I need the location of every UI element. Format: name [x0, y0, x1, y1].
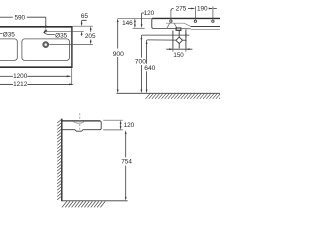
leader Ø35 left (cut off): [0, 32, 3, 34]
basin front edge (thick): [0, 66, 73, 68]
supply pipe right: [185, 29, 187, 48]
siphon diamond: [176, 37, 183, 43]
deck faucet hole: [45, 30, 47, 32]
left bowl: [0, 39, 17, 61]
drain flange: [176, 28, 181, 30]
svg-text:65: 65: [81, 13, 89, 20]
svg-text:1212: 1212: [13, 81, 28, 88]
basin profile top: [62, 120, 100, 122]
floor hatching side view: [62, 201, 105, 207]
dimension 1200: [0, 75, 13, 77]
extension line apron bottom: [133, 27, 145, 29]
dimension 275/190 extension verticals: [170, 10, 172, 19]
wall hatching: [57, 120, 61, 200]
oblique arrow at hole: [43, 29, 46, 33]
dimension 190: [209, 8, 212, 10]
dimension 900: [117, 18, 119, 22]
basin bar bottom left: [153, 27, 177, 29]
basin right edge: [71, 26, 73, 68]
extension line right edge below: [71, 68, 73, 84]
basin bar left end: [152, 18, 153, 28]
dimension 1212: [0, 83, 13, 85]
dim 120 extension bottom: [103, 129, 123, 131]
svg-text:120: 120: [124, 122, 135, 129]
svg-text:900: 900: [113, 51, 124, 58]
basin profile bottom with drain notch: [62, 130, 101, 132]
drain boss trapezoid: [167, 23, 177, 28]
deck hole middle: [194, 20, 196, 22]
svg-text:190: 190: [197, 6, 208, 13]
floor line elevation: [117, 92, 221, 94]
svg-text:590: 590: [14, 14, 25, 21]
dimension 205: [90, 26, 92, 30]
drain dashed centerline: [79, 113, 81, 131]
deck hole right: [212, 20, 214, 22]
basin bar bottom right: [181, 28, 191, 30]
svg-text:Ø35: Ø35: [55, 32, 68, 39]
drain pipe: [178, 30, 180, 37]
leader Ø35 right: [44, 32, 55, 34]
dimension 275: [171, 9, 174, 12]
svg-text:640: 640: [144, 65, 155, 72]
floor hatching elevation: [146, 94, 221, 99]
drain level line 640: [148, 39, 177, 41]
svg-text:120: 120: [144, 10, 155, 17]
wall line: [61, 119, 63, 202]
supply pipe left: [172, 31, 174, 49]
dimension 150: [172, 47, 174, 52]
svg-text:150: 150: [173, 52, 184, 59]
right bowl: [22, 39, 70, 61]
dimension 590 line: [0, 16, 13, 18]
dim 120 extension top: [103, 119, 123, 121]
deck hole left: [170, 20, 172, 22]
floor line side view: [62, 200, 128, 202]
supply level line 700: [142, 34, 189, 36]
dimension 120 side: [120, 120, 122, 124]
dimension 700: [141, 35, 142, 36]
drain ring outer rim: [43, 42, 49, 48]
top extension line to wall dim: [118, 17, 152, 19]
basin rear edge (thick): [0, 26, 73, 28]
svg-text:754: 754: [121, 159, 132, 166]
svg-text:1200: 1200: [13, 73, 28, 80]
dimension 640: [147, 40, 148, 41]
basin inner lip line: [166, 23, 191, 26]
basin profile front: [100, 121, 101, 130]
rear edge extension line: [73, 25, 93, 27]
svg-text:205: 205: [85, 33, 96, 40]
svg-text:146: 146: [122, 20, 133, 27]
svg-text:275: 275: [176, 6, 187, 13]
supply cross right: [185, 33, 187, 38]
deck hole centerline to right: [47, 30, 84, 32]
svg-text:Ø35: Ø35: [3, 32, 16, 39]
basin bar top edge: [152, 17, 220, 19]
drain ring outer circle: [44, 42, 48, 46]
dimension 754: [125, 130, 127, 134]
bowl dip hint: [74, 122, 84, 124]
drain centerline to right: [49, 44, 93, 46]
